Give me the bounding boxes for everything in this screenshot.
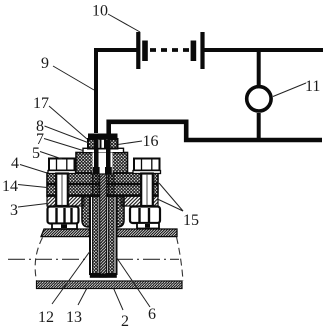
svg-text:5: 5: [32, 145, 40, 162]
svg-text:15: 15: [183, 212, 199, 229]
svg-text:13: 13: [66, 309, 82, 326]
svg-text:16: 16: [143, 133, 159, 150]
svg-text:6: 6: [148, 306, 156, 323]
svg-text:3: 3: [10, 202, 18, 219]
svg-text:4: 4: [11, 155, 19, 172]
svg-text:9: 9: [41, 55, 49, 72]
svg-text:17: 17: [33, 95, 49, 112]
svg-text:2: 2: [121, 313, 129, 328]
svg-text:14: 14: [2, 178, 18, 195]
svg-text:11: 11: [305, 78, 320, 95]
svg-text:12: 12: [38, 309, 54, 326]
svg-text:10: 10: [92, 3, 108, 20]
